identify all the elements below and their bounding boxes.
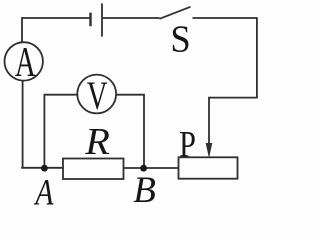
svg-text:A: A [34, 172, 54, 205]
svg-text:V: V [87, 74, 108, 119]
svg-text:A: A [15, 39, 36, 86]
svg-text:R: R [84, 121, 110, 163]
svg-text:P: P [179, 125, 196, 165]
svg-text:B: B [133, 170, 156, 205]
svg-text:S: S [170, 19, 190, 61]
